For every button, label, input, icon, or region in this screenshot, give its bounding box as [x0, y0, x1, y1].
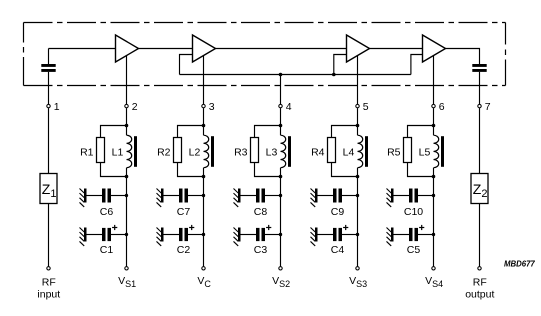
- svg-text:R4: R4: [311, 146, 325, 158]
- svg-text:L1: L1: [112, 146, 124, 158]
- wire: tank 1 bottom to C6 node: [126, 177, 128, 196]
- wire: ground to C3: [241, 234, 257, 236]
- wire: C4 to pin 5 column: [342, 234, 358, 236]
- junction: tank 4 top node: [356, 124, 360, 128]
- ground (chassis) for C3: [234, 228, 241, 246]
- op-amp A4 (amplifier stage 4): [423, 35, 446, 62]
- svg-text:2: 2: [132, 101, 138, 113]
- svg-text:L2: L2: [189, 146, 201, 158]
- wire: C7 to pin 3 column: [188, 195, 204, 197]
- svg-text:C5: C5: [407, 244, 421, 256]
- wire: tank top rail to R4: [332, 126, 358, 138]
- wire: tank top node to L4: [357, 126, 359, 136]
- wire: column between C7 and C2: [203, 196, 205, 235]
- wire: input coupling cap to amplifier A1 input: [49, 48, 116, 50]
- svg-text:C3: C3: [254, 244, 268, 256]
- capacitor C9 (decoupling): [333, 189, 342, 203]
- wire: rail tap up to A4: [411, 55, 423, 75]
- wire: column down to supply terminal: [126, 235, 128, 267]
- wire: L4 to tank bottom node: [357, 168, 359, 177]
- svg-text:L3: L3: [266, 146, 278, 158]
- junction: C2 / column: [202, 233, 205, 236]
- ground (chassis) for C5: [387, 228, 394, 246]
- op-amp A3 (amplifier stage 3): [347, 35, 370, 62]
- wire: ground to C2: [164, 234, 180, 236]
- inductor core bar (L3 tuning slug): [288, 136, 291, 167]
- wire: tank top node to L1: [126, 126, 128, 136]
- pin 5 (open circle): [356, 104, 359, 107]
- svg-text:C8: C8: [254, 206, 268, 218]
- ground (chassis) for C8: [234, 189, 241, 207]
- junction: rail / pin 4: [279, 73, 283, 77]
- svg-text:R5: R5: [387, 146, 401, 158]
- wire: column down to supply terminal: [357, 235, 359, 267]
- wire: C8 to pin 4 column: [265, 195, 281, 197]
- wire: rail down to pin 4: [280, 75, 282, 105]
- resistor R5 (damping resistor): [404, 138, 412, 163]
- wire: ground to C4: [318, 234, 334, 236]
- svg-text:L5: L5: [419, 146, 431, 158]
- wire: tank top rail to R1: [101, 126, 127, 138]
- junction: tank 5 top node: [432, 124, 436, 128]
- inductor core bar (L1 tuning slug): [134, 136, 137, 167]
- wire: tank 5 bottom to C10 node: [433, 177, 435, 196]
- svg-text:C2: C2: [177, 244, 191, 256]
- wire: C1 to pin 2 column: [111, 234, 127, 236]
- wire: column between C10 and C5: [433, 196, 435, 235]
- wire: A2 output to A3 input: [216, 48, 347, 50]
- capacitor C1 (electrolytic decoupling): [102, 228, 111, 241]
- ground (chassis) for C9: [311, 189, 318, 207]
- wire: column down to supply terminal: [280, 235, 282, 267]
- wire: L3 to tank bottom node: [280, 168, 282, 177]
- wire: ground to C1: [87, 234, 103, 236]
- pin 1 (open circle): [47, 104, 50, 107]
- junction: rail / A3 tap: [332, 73, 336, 77]
- ground (chassis) for C6: [80, 189, 87, 207]
- terminal: VS1 (open circle): [125, 267, 128, 270]
- svg-text:input: input: [37, 289, 60, 301]
- inductor core bar (L4 tuning slug): [365, 136, 368, 167]
- wire: input cap down to pin 1: [48, 72, 50, 104]
- inductor L4: [358, 135, 363, 167]
- resistor R4 (damping resistor): [328, 138, 336, 163]
- svg-text:VS4: VS4: [425, 275, 443, 289]
- wire: rail tap up to A3: [334, 55, 347, 75]
- junction: tank 3 top node: [279, 124, 283, 128]
- pin 7 (open circle): [478, 104, 481, 107]
- resistor R2 (damping resistor): [174, 138, 182, 163]
- wire: pin 3 down to tank L2 top node: [203, 108, 205, 125]
- wire: pin 2 down to tank L1 top node: [126, 108, 128, 125]
- wire: pin 7 down to Z2: [479, 108, 481, 173]
- wire: Z1 down to RF input terminal: [48, 204, 50, 267]
- svg-text:MBD677: MBD677: [504, 260, 535, 269]
- capacitor: input coupling cap (internal, unlabelled): [41, 64, 55, 72]
- wire: tank 2 bottom to C7 node: [203, 177, 205, 196]
- polarity + sign of C1: [112, 225, 117, 230]
- junction: C10 / column: [432, 194, 435, 197]
- junction: C7 / column: [202, 194, 205, 197]
- wire: column between C8 and C3: [280, 196, 282, 235]
- svg-text:VS2: VS2: [272, 275, 290, 289]
- wire: C6 to pin 2 column: [111, 195, 127, 197]
- wire: C10 to pin 6 column: [418, 195, 434, 197]
- wire: tank top node to L2: [203, 126, 205, 136]
- op-amp A1 (amplifier stage 1): [116, 35, 139, 62]
- wire: Z2 down to RF output terminal: [479, 204, 481, 267]
- capacitor C10 (decoupling): [409, 189, 418, 203]
- capacitor C7 (decoupling): [179, 189, 188, 203]
- wire: ground to C5: [394, 234, 410, 236]
- junction: C4 / column: [356, 233, 359, 236]
- wire: signal node down to input cap top plate: [48, 49, 50, 65]
- wire: C9 to pin 5 column: [342, 195, 358, 197]
- wire: tank top rail to R2: [178, 126, 204, 138]
- terminal: RF output (open circle): [478, 267, 481, 270]
- junction: C1 / column: [125, 233, 128, 236]
- wire: C3 to pin 4 column: [265, 234, 281, 236]
- wire: ground to C10: [394, 195, 410, 197]
- wire: ground to C8: [241, 195, 257, 197]
- wire: gain-control rail (pin 4 net): [180, 74, 411, 76]
- IC package outline (dash-dot box): [24, 23, 506, 86]
- inductor L2: [204, 135, 209, 167]
- wire: L1 to tank bottom node: [126, 168, 128, 177]
- junction: tank 1 bottom node: [125, 175, 129, 179]
- wire: R3 to tank bottom rail: [255, 163, 281, 177]
- terminal: RF input (open circle): [47, 267, 50, 270]
- wire: output cap down to pin 7: [479, 72, 481, 104]
- inductor core bar (L5 tuning slug): [441, 136, 444, 167]
- junction: tank 2 top node: [202, 124, 206, 128]
- wire: L5 to tank bottom node: [433, 168, 435, 177]
- ground (chassis) for C1: [80, 228, 87, 246]
- polarity + sign of C4: [343, 225, 348, 230]
- wire: pin 6 down to tank L5 top node: [433, 108, 435, 125]
- wire: tank 3 bottom to C8 node: [280, 177, 282, 196]
- svg-text:output: output: [465, 288, 494, 300]
- svg-text:C6: C6: [100, 206, 114, 218]
- wire: A3 output to A4 input: [370, 48, 423, 50]
- svg-text:C1: C1: [100, 244, 114, 256]
- inductor L1: [127, 135, 132, 167]
- svg-text:R2: R2: [157, 146, 171, 158]
- svg-text:C10: C10: [404, 206, 423, 218]
- junction: C9 / column: [356, 194, 359, 197]
- junction: tank 2 bottom node: [202, 175, 206, 179]
- svg-text:5: 5: [363, 101, 369, 113]
- junction: C5 / column: [432, 233, 435, 236]
- junction: tank 4 bottom node: [356, 175, 360, 179]
- terminal: VS2 (open circle): [279, 267, 282, 270]
- wire: A3 to pin 5: [357, 55, 359, 104]
- ground (chassis) for C7: [157, 189, 164, 207]
- wire: C2 to pin 3 column: [188, 234, 204, 236]
- wire: A4 to pin 6: [433, 55, 435, 104]
- svg-text:C4: C4: [331, 244, 345, 256]
- ground (chassis) for C4: [311, 228, 318, 246]
- wire: column between C9 and C4: [357, 196, 359, 235]
- capacitor C8 (decoupling): [256, 189, 265, 203]
- wire: R1 to tank bottom rail: [101, 163, 127, 177]
- terminal: VS3 (open circle): [356, 267, 359, 270]
- svg-text:3: 3: [209, 101, 215, 113]
- wire: A1 to pin 2: [126, 55, 128, 104]
- svg-text:R1: R1: [80, 146, 94, 158]
- wire: ground to C6: [87, 195, 103, 197]
- wire: column down to supply terminal: [433, 235, 435, 267]
- wire: tank top node to L5: [433, 126, 435, 136]
- wire: rail tap up to A2: [180, 55, 193, 75]
- svg-text:L4: L4: [343, 146, 355, 158]
- capacitor C4 (electrolytic decoupling): [333, 228, 342, 241]
- junction: C6 / column: [125, 194, 128, 197]
- pin 3 (open circle): [202, 104, 205, 107]
- resistor R3 (damping resistor): [251, 138, 259, 163]
- resistor R1 (damping resistor): [97, 138, 105, 163]
- svg-text:RF: RF: [473, 276, 487, 288]
- svg-text:VS1: VS1: [118, 275, 136, 289]
- svg-text:6: 6: [439, 101, 445, 113]
- terminal: VS4 (open circle): [432, 267, 435, 270]
- svg-text:R3: R3: [234, 146, 248, 158]
- inductor L5: [434, 135, 439, 167]
- wire: R5 to tank bottom rail: [408, 163, 434, 177]
- wire: pin 4 down to tank L3 top node: [280, 108, 282, 125]
- wire: A1 output to A2 input: [139, 48, 193, 50]
- wire: ground to C7: [164, 195, 180, 197]
- wire: tank 4 bottom to C9 node: [357, 177, 359, 196]
- capacitor: output coupling cap (internal, unlabelled): [472, 64, 486, 72]
- terminal: VC (open circle): [202, 267, 205, 270]
- polarity + sign of C3: [266, 225, 271, 230]
- pin 6 (open circle): [432, 104, 435, 107]
- svg-text:4: 4: [286, 101, 292, 113]
- svg-text:VC: VC: [197, 275, 211, 289]
- inductor L3: [281, 135, 286, 167]
- svg-text:7: 7: [485, 101, 491, 113]
- wire: pin 1 down to Z1: [48, 108, 50, 173]
- capacitor C3 (electrolytic decoupling): [256, 228, 265, 241]
- ground (chassis) for C2: [157, 228, 164, 246]
- svg-text:C7: C7: [177, 206, 191, 218]
- wire: tank top rail to R3: [255, 126, 281, 138]
- pin 4 (open circle): [279, 104, 282, 107]
- wire: C5 to pin 6 column: [418, 234, 434, 236]
- ground (chassis) for C10: [387, 189, 394, 207]
- wire: R2 to tank bottom rail: [178, 163, 204, 177]
- junction: tank 3 bottom node: [279, 175, 283, 179]
- polarity + sign of C5: [419, 225, 424, 230]
- svg-text:1: 1: [54, 101, 60, 113]
- junction: C3 / column: [279, 233, 282, 236]
- junction: tank 5 bottom node: [432, 175, 436, 179]
- svg-text:RF: RF: [42, 277, 56, 289]
- capacitor C2 (electrolytic decoupling): [179, 228, 188, 241]
- svg-text:VS3: VS3: [349, 275, 367, 289]
- capacitor C5 (electrolytic decoupling): [409, 228, 418, 241]
- inductor core bar (L2 tuning slug): [211, 136, 214, 167]
- impedance Z2 (load impedance box): [471, 174, 488, 204]
- wire: A4 output to output coupling cap: [446, 49, 480, 65]
- svg-text:C9: C9: [331, 206, 345, 218]
- impedance Z1 (source impedance box): [40, 174, 57, 204]
- wire: column down to supply terminal: [203, 235, 205, 267]
- wire: R4 to tank bottom rail: [332, 163, 358, 177]
- wire: tank top rail to R5: [408, 126, 434, 138]
- wire: L2 to tank bottom node: [203, 168, 205, 177]
- junction: tank 1 top node: [125, 124, 129, 128]
- wire: tank top node to L3: [280, 126, 282, 136]
- pin 2 (open circle): [125, 104, 128, 107]
- wire: ground to C9: [318, 195, 334, 197]
- capacitor C6 (decoupling): [102, 189, 111, 203]
- junction: C8 / column: [279, 194, 282, 197]
- wire: A2 to pin 3: [203, 55, 205, 104]
- wire: column between C6 and C1: [126, 196, 128, 235]
- op-amp A2 (amplifier stage 2): [193, 35, 216, 62]
- polarity + sign of C2: [189, 225, 194, 230]
- wire: pin 5 down to tank L4 top node: [357, 108, 359, 125]
